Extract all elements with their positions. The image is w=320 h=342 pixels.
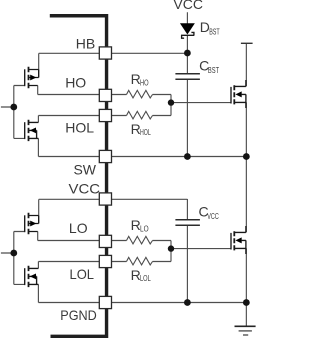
svg-text:PGND: PGND [60, 307, 97, 323]
svg-text:LO: LO [69, 220, 88, 236]
svg-text:VCC: VCC [173, 0, 203, 12]
svg-text:HO: HO [65, 74, 86, 90]
svg-text:LO: LO [140, 224, 149, 233]
svg-text:BST: BST [209, 27, 220, 36]
svg-text:SW: SW [73, 161, 96, 177]
svg-text:HOL: HOL [65, 120, 94, 136]
svg-text:LOL: LOL [70, 266, 95, 282]
svg-text:HO: HO [140, 78, 149, 87]
svg-text:BST: BST [208, 66, 219, 75]
svg-text:VCC: VCC [207, 212, 219, 221]
svg-text:LOL: LOL [140, 274, 151, 283]
svg-text:HB: HB [76, 35, 95, 51]
svg-text:HOL: HOL [140, 128, 151, 137]
svg-text:VCC: VCC [69, 180, 101, 196]
